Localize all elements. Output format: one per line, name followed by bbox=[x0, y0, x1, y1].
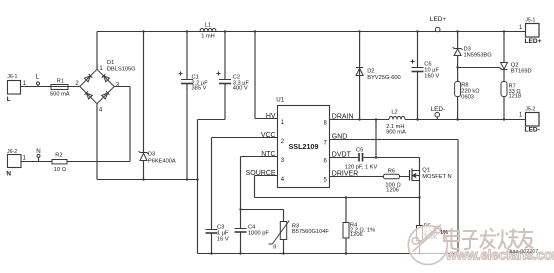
fuse R1 500 mA bbox=[50, 79, 70, 98]
svg-text:385 V: 385 V bbox=[192, 86, 207, 92]
svg-text:1218: 1218 bbox=[509, 94, 522, 100]
capacitor C6 10uF 160V bbox=[411, 30, 440, 120]
svg-text:Q1: Q1 bbox=[422, 168, 430, 174]
svg-text:J6-1: J6-1 bbox=[7, 74, 17, 80]
svg-text:1 mH: 1 mH bbox=[201, 33, 215, 39]
svg-text:J5-2: J5-2 bbox=[525, 106, 535, 112]
svg-text:500 mA: 500 mA bbox=[50, 91, 70, 97]
watermark www.elecfans.com bbox=[445, 248, 554, 263]
node LED+ terminal bbox=[430, 16, 446, 32]
svg-text:L: L bbox=[36, 74, 40, 81]
transistor Q1 MOSFET N bbox=[410, 158, 452, 199]
wire DVDT pin6 bbox=[330, 157, 420, 159]
svg-text:R1: R1 bbox=[57, 79, 64, 85]
svg-text:400 V: 400 V bbox=[233, 86, 248, 92]
svg-text:DBLS105G: DBLS105G bbox=[107, 66, 136, 72]
resistor R5 tolerance label bbox=[440, 230, 448, 236]
svg-text:U1: U1 bbox=[276, 97, 284, 104]
connector J5-1 bbox=[519, 18, 542, 45]
resistor R4 2.2 ohm bbox=[343, 196, 375, 254]
inductor L1 1 mH bbox=[200, 23, 216, 40]
watermark text dianzifashaoyou bbox=[444, 228, 533, 249]
wire Q2 gate bbox=[458, 68, 502, 70]
svg-text:D2: D2 bbox=[367, 68, 374, 74]
svg-text:1206: 1206 bbox=[386, 187, 399, 193]
svg-text:R6: R6 bbox=[388, 168, 395, 174]
zener D3 1N5953BG bbox=[453, 30, 492, 81]
svg-text:16 V: 16 V bbox=[217, 236, 229, 242]
connector J5-2 bbox=[519, 106, 540, 133]
svg-text:BYV25G-600: BYV25G-600 bbox=[367, 75, 401, 81]
svg-text:LED+: LED+ bbox=[430, 16, 446, 23]
wire VCC pin2 bbox=[212, 138, 278, 230]
svg-text:C5: C5 bbox=[356, 147, 363, 153]
capacitor C3 1uF 16V bbox=[206, 225, 230, 255]
connector J6-1 bbox=[7, 74, 27, 103]
svg-text:N: N bbox=[6, 171, 11, 178]
svg-text:MOSFET N: MOSFET N bbox=[422, 174, 451, 180]
wire bottom ground rail bbox=[198, 253, 459, 255]
svg-text:SSL2109: SSL2109 bbox=[289, 142, 319, 151]
svg-text:L1: L1 bbox=[205, 23, 211, 29]
svg-text:1000 pF: 1000 pF bbox=[248, 231, 269, 237]
IC U1 SSL2109 bbox=[246, 97, 359, 188]
svg-text:J5-1: J5-1 bbox=[525, 18, 535, 24]
capacitor C5 120pF 1KV bbox=[345, 147, 378, 170]
svg-text:1N5953BG: 1N5953BG bbox=[464, 53, 492, 59]
node L flag bbox=[36, 74, 40, 87]
wire NTC pin3 bbox=[239, 157, 283, 211]
svg-text:LED-: LED- bbox=[525, 127, 540, 134]
inductor L2 2.1 mH 900 mA bbox=[386, 109, 406, 135]
svg-text:J6-2: J6-2 bbox=[7, 149, 17, 155]
wire bridge pin4 negative bbox=[97, 104, 198, 180]
svg-text:Q2: Q2 bbox=[511, 62, 519, 68]
wire DRAIN pin8 LED- rail bbox=[330, 119, 526, 121]
svg-text:N: N bbox=[36, 148, 40, 155]
svg-text:1%: 1% bbox=[440, 230, 448, 236]
svg-text:LED+: LED+ bbox=[525, 38, 542, 45]
watermark logo circle bbox=[408, 225, 447, 265]
watermark id aaa-002207 bbox=[510, 249, 539, 255]
svg-text:L: L bbox=[7, 96, 11, 103]
resistor R5 bbox=[417, 198, 440, 255]
svg-text:θ: θ bbox=[273, 244, 276, 250]
wire bridge pin3 to N bbox=[114, 87, 130, 162]
node LED- terminal bbox=[431, 106, 446, 120]
node N flag bbox=[36, 148, 40, 162]
capacitor C2 3.3uF 400V bbox=[198, 30, 250, 119]
connector J6-2 bbox=[6, 149, 26, 178]
svg-text:BT169D: BT169D bbox=[511, 69, 532, 75]
TVS diode D3 P6KE400A bbox=[139, 30, 176, 180]
wire HV pin1 to bus bbox=[254, 30, 278, 118]
svg-text:10 µF: 10 µF bbox=[424, 67, 439, 73]
wire top DC bus bbox=[97, 31, 526, 33]
thyristor Q2 BT169D bbox=[501, 30, 532, 81]
thermistor R3 B57560G104F bbox=[269, 210, 330, 255]
capacitor C4 1000 pF bbox=[235, 210, 270, 255]
svg-text:900 mA: 900 mA bbox=[386, 130, 406, 136]
resistor R7 33 ohm bbox=[501, 82, 521, 121]
wire SOURCE pin4 bbox=[255, 176, 420, 198]
diode D2 BYV25G-600 bbox=[356, 30, 401, 120]
svg-text:160 V: 160 V bbox=[424, 73, 439, 79]
svg-text:10 Ω: 10 Ω bbox=[54, 167, 66, 173]
svg-text:120 pF, 1 KV: 120 pF, 1 KV bbox=[345, 164, 378, 170]
svg-text:0603: 0603 bbox=[461, 94, 474, 100]
wire N input bbox=[21, 161, 130, 163]
svg-text:D1: D1 bbox=[107, 60, 114, 66]
wire L input bbox=[21, 86, 81, 88]
bridge rectifier D1 DBLS105G bbox=[75, 32, 135, 114]
wire ground riser x197.5 bbox=[196, 120, 198, 254]
svg-text:aaa-002207: aaa-002207 bbox=[510, 249, 539, 255]
capacitor C1 2.2uF 385V bbox=[179, 30, 209, 180]
svg-text:1206: 1206 bbox=[350, 232, 363, 238]
svg-text:LED-: LED- bbox=[431, 106, 446, 113]
svg-text:D3: D3 bbox=[464, 46, 471, 52]
svg-text:R2: R2 bbox=[55, 153, 62, 159]
svg-text:P6KE400A: P6KE400A bbox=[148, 159, 176, 165]
svg-text:L2: L2 bbox=[391, 109, 397, 115]
resistor R6 100 ohm bbox=[330, 168, 410, 193]
svg-text:B57560G104F: B57560G104F bbox=[292, 229, 330, 235]
resistor R8 220k bbox=[455, 82, 480, 121]
wire GND pin7 bbox=[330, 140, 459, 254]
resistor R2 10 ohm bbox=[52, 153, 67, 173]
svg-text:D3: D3 bbox=[148, 151, 155, 157]
wire drain tap x376 bbox=[375, 118, 377, 158]
